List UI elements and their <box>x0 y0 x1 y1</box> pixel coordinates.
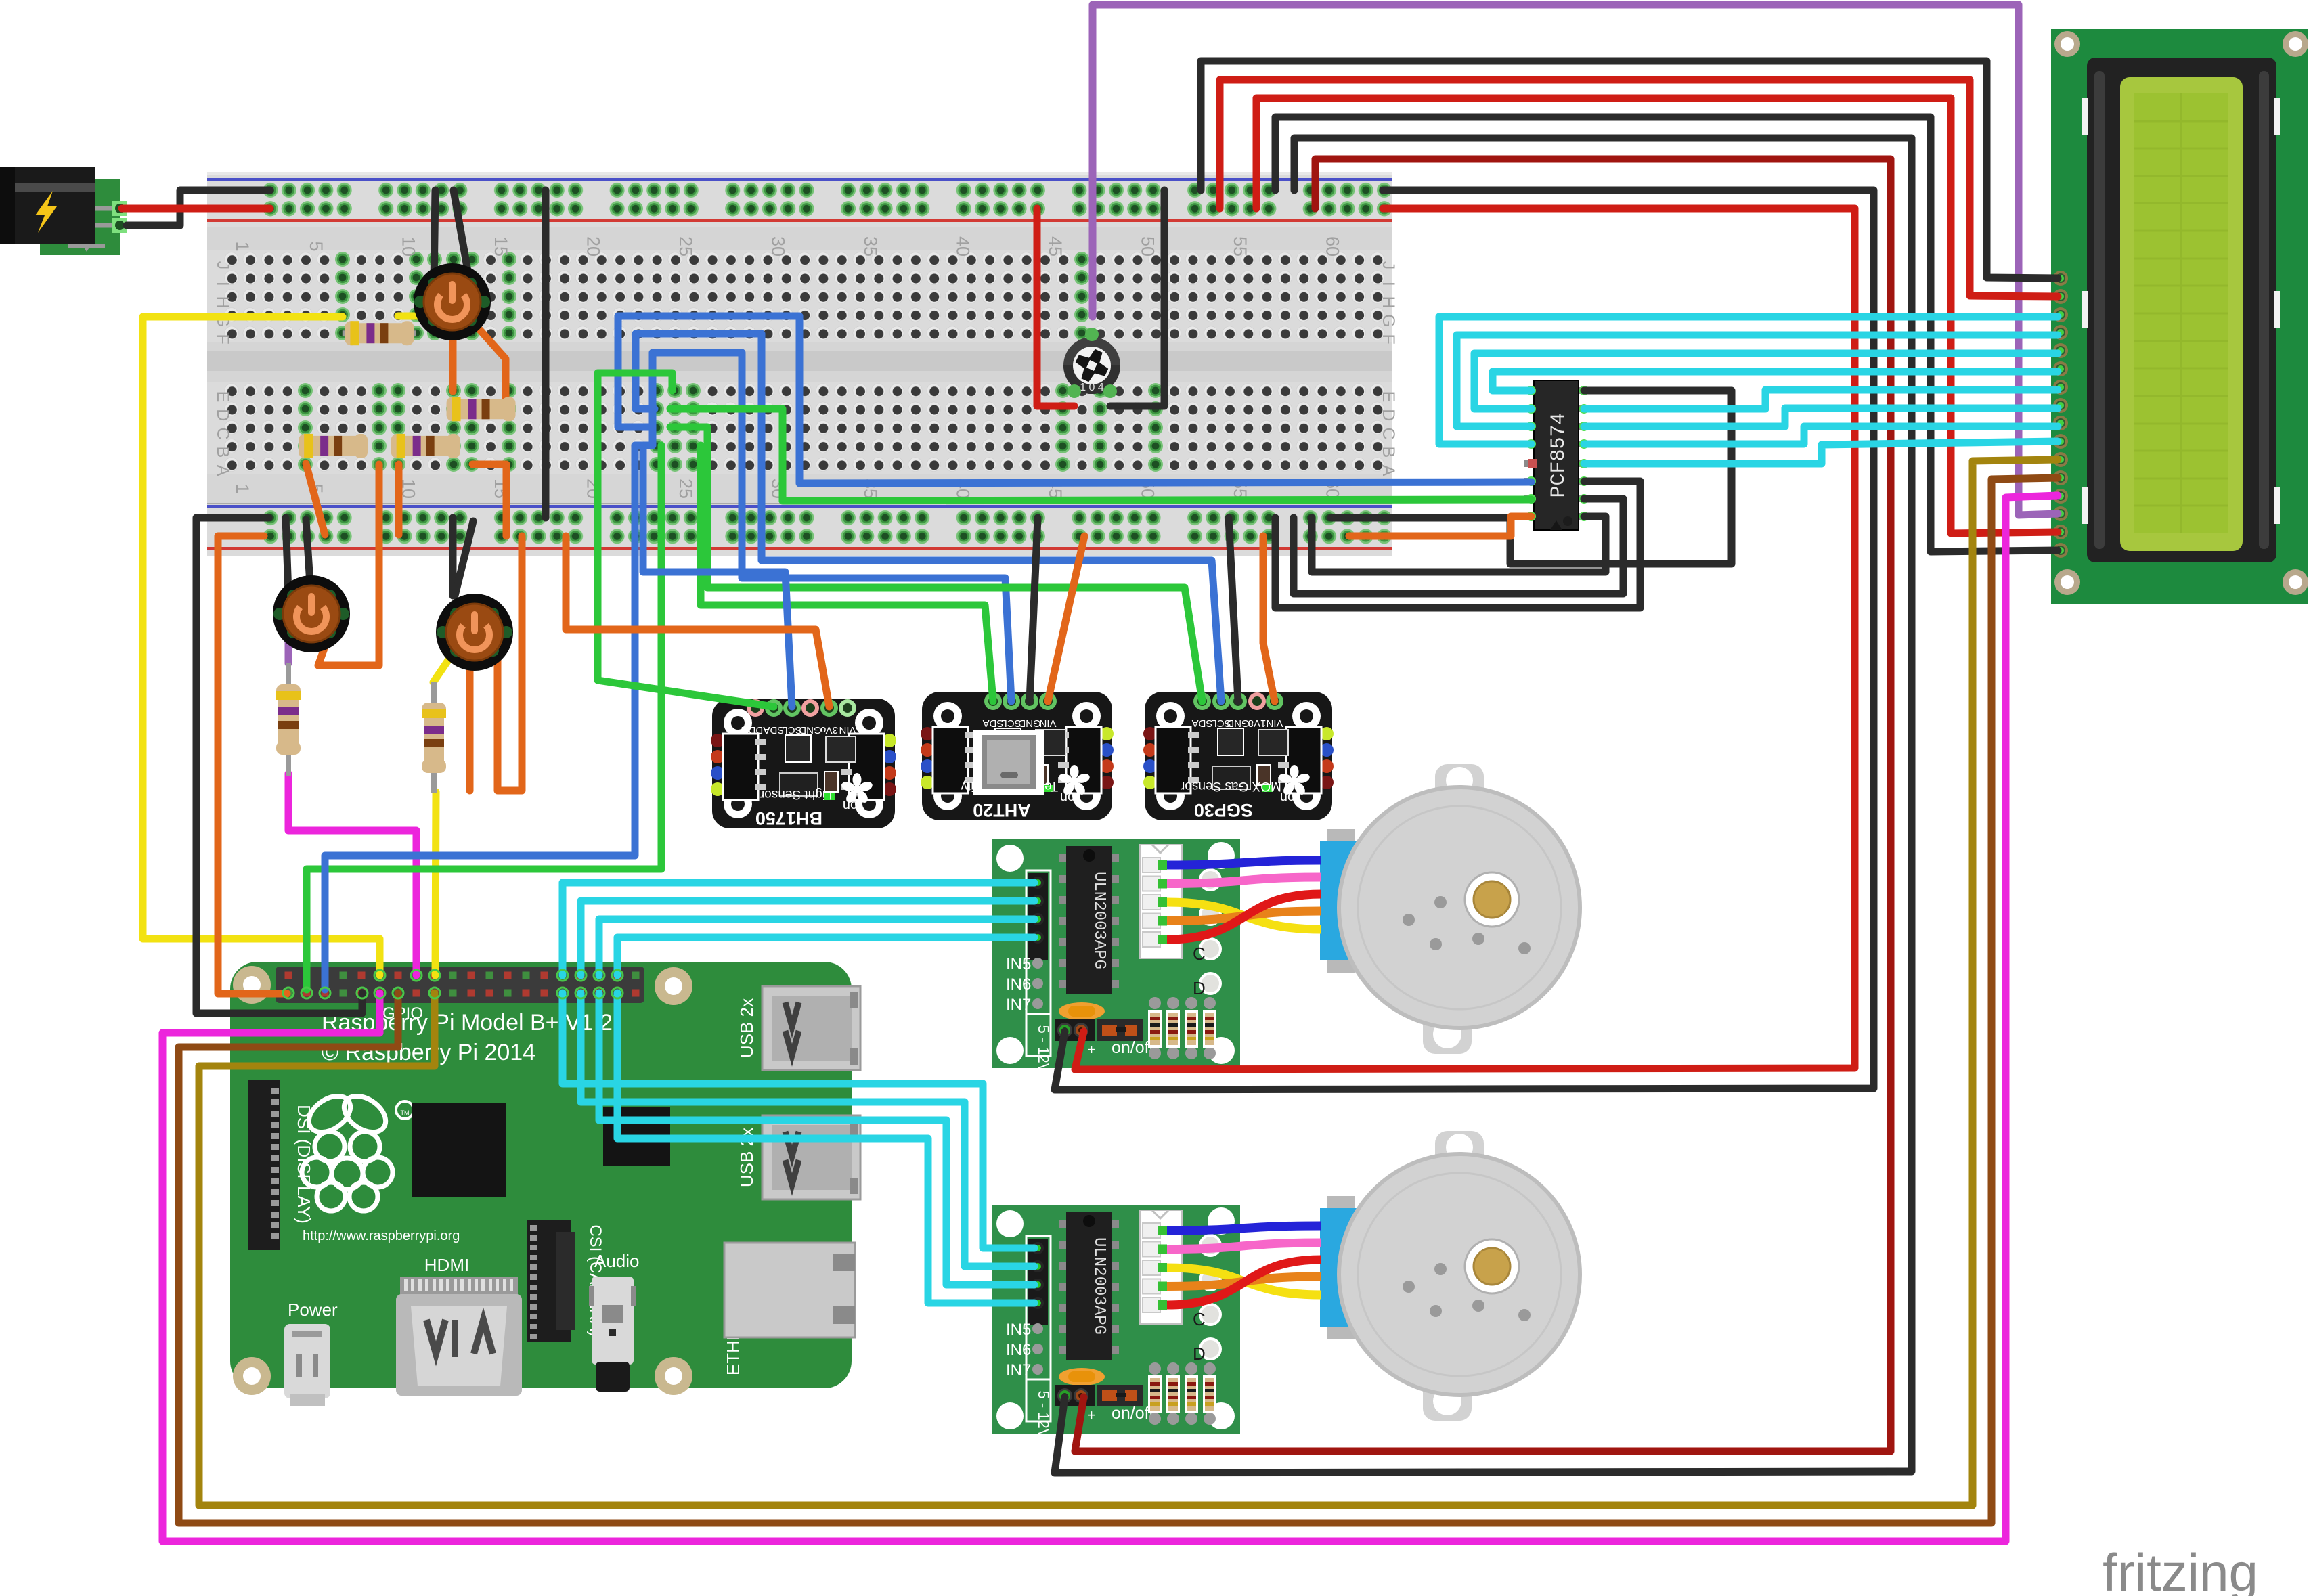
wire button2 black a <box>286 518 288 594</box>
wire cyan D0 <box>1493 372 2058 391</box>
wire black PCF p1 <box>1331 391 1732 564</box>
svg-text:SGP30: SGP30 <box>1194 800 1253 820</box>
wire driver1 black <box>1055 190 1874 1090</box>
resistor R3 <box>391 434 460 458</box>
wire button1 black a <box>434 190 435 282</box>
svg-text:IN7: IN7 <box>1006 1361 1031 1379</box>
svg-text:D: D <box>1379 409 1398 421</box>
wire cyan D3 <box>1439 317 2058 444</box>
wire orange PCF <box>1349 516 1531 536</box>
svg-text:MOX Gas Sensor: MOX Gas Sensor <box>1180 779 1281 793</box>
wire gnd black left <box>196 518 362 1013</box>
svg-text:D: D <box>1193 978 1206 998</box>
svg-text:I: I <box>213 282 232 286</box>
wire driver1 red <box>1075 208 1855 1069</box>
svg-text:SDA: SDA <box>764 724 785 736</box>
wire orange btn3 leg <box>466 648 474 791</box>
svg-text:USB 2x: USB 2x <box>736 998 757 1058</box>
wire green BH1750 <box>598 373 774 707</box>
wire magenta to GPIO <box>288 774 416 975</box>
svg-text:BH1750: BH1750 <box>755 808 822 828</box>
wire button3 yellow a <box>433 648 456 682</box>
svg-text:ULN2003APG: ULN2003APG <box>1090 872 1108 969</box>
sensor SGP30 <box>1143 692 1334 820</box>
wire cyan D1 <box>1474 353 2058 409</box>
breadboard labels <box>213 236 1398 499</box>
svg-text:GND: GND <box>1227 717 1250 729</box>
svg-text:+: + <box>1087 1406 1096 1423</box>
resistor R6 <box>422 682 446 793</box>
svg-text:5: 5 <box>306 241 326 251</box>
wire orange AHT20 <box>1048 536 1084 701</box>
svg-text:F: F <box>213 334 232 345</box>
wire blue SGP30 <box>636 334 1221 701</box>
wire cyan D6 <box>1584 426 2058 444</box>
wire cyan IN6 <box>581 993 1034 1266</box>
wire magenta LCD <box>162 495 2058 1541</box>
wire rail jumper black <box>542 190 550 518</box>
wire green AHT20 <box>701 445 993 701</box>
svg-text:I: I <box>1379 282 1398 286</box>
wire orange btn3 hook <box>498 536 522 791</box>
wire cyan IN4 <box>617 937 1034 975</box>
svg-text:A: A <box>1379 465 1398 476</box>
wire button1 orange <box>449 322 457 391</box>
wire button3 black b <box>455 521 473 596</box>
wire button1 orange b <box>471 320 506 406</box>
resistor R5 <box>276 663 301 776</box>
wire button2 purple <box>285 628 292 663</box>
svg-text:J: J <box>213 261 232 270</box>
svg-text:GND: GND <box>799 724 822 736</box>
svg-text:35: 35 <box>860 236 881 257</box>
wire LCD vcc red <box>1220 80 2058 296</box>
svg-text:IN6: IN6 <box>1006 975 1031 994</box>
svg-text:60: 60 <box>1323 236 1343 257</box>
wire button2 black b <box>306 520 311 594</box>
svg-text:C: C <box>1193 944 1206 964</box>
svg-text:fritzing: fritzing <box>2103 1543 2258 1596</box>
svg-text:3Vo: 3Vo <box>820 724 838 736</box>
svg-text:25: 25 <box>676 236 696 257</box>
svg-text:HDMI: HDMI <box>424 1255 469 1275</box>
LCD1602 display <box>2051 29 2308 604</box>
svg-text:G: G <box>1379 314 1398 327</box>
wire green SGP30 <box>670 427 1202 701</box>
wire brown LCD <box>179 478 2058 1523</box>
svg-text:IN6: IN6 <box>1006 1341 1031 1359</box>
wire orange col9 <box>318 464 379 665</box>
wire driver2 red <box>1075 159 1891 1451</box>
wire orange A10 <box>395 464 403 535</box>
svg-text:15: 15 <box>491 236 511 257</box>
svg-text:GND: GND <box>1018 717 1041 729</box>
svg-text:E: E <box>1379 391 1398 403</box>
svg-text:1 0 4: 1 0 4 <box>1080 382 1104 393</box>
wire purple LCD RW <box>1093 5 2058 515</box>
connection points <box>283 970 623 998</box>
svg-text:45: 45 <box>1045 236 1065 257</box>
svg-text:IN5: IN5 <box>1006 955 1031 973</box>
svg-text:IN7: IN7 <box>1006 996 1031 1014</box>
wire orange A16 <box>472 464 506 536</box>
power jack J1 <box>0 167 127 255</box>
trimpot RV1 104 <box>1063 328 1120 398</box>
svg-text:1: 1 <box>232 241 252 251</box>
svg-text:C: C <box>1193 1309 1206 1329</box>
resistor R2 <box>299 434 368 458</box>
svg-text:http://www.raspberrypi.org: http://www.raspberrypi.org <box>303 1228 460 1243</box>
svg-text:SDA: SDA <box>1192 717 1213 729</box>
svg-text:D: D <box>213 409 232 421</box>
wire cyan IN7 <box>599 993 1034 1285</box>
wire cyan D4 <box>1584 390 2058 409</box>
svg-text:Audio: Audio <box>594 1251 640 1271</box>
resistor R1 <box>343 321 416 345</box>
svg-text:50: 50 <box>1138 236 1158 257</box>
svg-text:E: E <box>213 391 232 403</box>
wire black SGP30 <box>1229 518 1238 701</box>
wire trimpot red <box>1037 208 1074 406</box>
wire LCD K black <box>1275 117 2058 552</box>
wire orange BH1750 <box>566 536 829 707</box>
svg-text:5 - 12V: 5 - 12V <box>1035 1025 1052 1073</box>
wire cyan IN8 <box>617 993 1034 1303</box>
IC PCF8574 U2 <box>1524 380 1589 530</box>
wire black PCF p7 <box>1294 499 1623 594</box>
wire yellow stub G11 <box>398 313 433 320</box>
wire green GPIO SDA <box>307 445 661 990</box>
wire cyan D5 <box>1584 408 2058 426</box>
svg-text:55: 55 <box>1230 236 1250 257</box>
wire button1 black b <box>454 190 470 282</box>
wire LCD gnd black <box>1201 61 2058 278</box>
wire blue PCF <box>618 316 1531 483</box>
svg-text:AHT20: AHT20 <box>973 800 1031 820</box>
svg-text:D: D <box>1193 1344 1206 1364</box>
svg-text:30: 30 <box>768 236 789 257</box>
sensor AHT20 <box>921 692 1114 820</box>
wire 5V orange left <box>218 536 287 994</box>
wire black PCF p8 <box>1312 516 1606 572</box>
wire black AHT20 <box>1030 518 1038 701</box>
svg-text:1: 1 <box>232 483 252 493</box>
svg-text:SDA: SDA <box>983 717 1004 729</box>
wire cyan D7 <box>1584 441 2058 464</box>
svg-text:10: 10 <box>399 236 419 257</box>
wire button3 black a <box>449 518 457 596</box>
breadboard <box>207 172 1392 556</box>
motor M1 ribbon <box>1167 860 1321 939</box>
svg-text:ULN2003APG: ULN2003APG <box>1090 1237 1108 1335</box>
AHT20 sensor element <box>973 730 1044 795</box>
wire button3 yellow b <box>435 792 436 975</box>
stepper driver ULN2003 #2 <box>992 1205 1240 1439</box>
svg-text:SCL: SCL <box>1001 717 1021 729</box>
svg-text:25: 25 <box>676 479 696 499</box>
svg-text:H: H <box>1379 296 1398 309</box>
svg-text:on/off: on/off <box>1112 1404 1153 1423</box>
wire cyan IN3 <box>599 919 1034 975</box>
wire green PCF <box>670 409 1531 501</box>
wire olive LCD <box>199 460 2058 1505</box>
breadboard connected strips <box>298 252 1163 472</box>
svg-text:20: 20 <box>584 236 604 257</box>
wire black PCF p6 <box>1275 481 1640 608</box>
svg-text:IN5: IN5 <box>1006 1321 1031 1339</box>
stepper motor M2 <box>1320 1131 1580 1421</box>
svg-text:C: C <box>213 428 232 440</box>
svg-text:VIN: VIN <box>839 724 856 736</box>
wire LCD A red <box>1256 98 2058 533</box>
svg-text:VIN: VIN <box>1039 717 1056 729</box>
wire cyan IN2 <box>581 901 1034 975</box>
wire cyan D2 <box>1457 335 2058 426</box>
wire blue GPIO SCL <box>325 353 1011 990</box>
wire trimpot black <box>1110 190 1164 406</box>
svg-text:PCF8574: PCF8574 <box>1547 412 1570 497</box>
wire jack red <box>122 205 270 213</box>
Raspberry Pi B+ <box>230 962 860 1406</box>
svg-text:B: B <box>1379 447 1398 458</box>
pushbutton S2 <box>273 575 350 652</box>
pushbutton S3 <box>436 594 513 671</box>
wire blue BH1750 <box>643 445 792 707</box>
pushbutton S1 <box>414 263 491 340</box>
motor M2 ribbon <box>1167 1226 1321 1305</box>
svg-text:VIN: VIN <box>1266 717 1283 729</box>
svg-text:J: J <box>1379 261 1398 270</box>
svg-text:on/off: on/off <box>1112 1038 1153 1057</box>
svg-text:40: 40 <box>953 236 973 257</box>
svg-text:B: B <box>213 447 232 458</box>
svg-text:SCL: SCL <box>782 724 801 736</box>
svg-text:Power: Power <box>288 1300 338 1320</box>
wire cyan IN5 <box>563 993 1034 1248</box>
svg-text:1V8: 1V8 <box>1248 717 1267 729</box>
stepper driver ULN2003 #1 <box>992 839 1240 1073</box>
svg-text:H: H <box>213 296 232 309</box>
stepper motor M1 <box>1320 764 1580 1054</box>
resistor R4 <box>447 397 516 421</box>
wire yellow long <box>143 317 380 975</box>
svg-text:A: A <box>213 465 232 476</box>
svg-text:F: F <box>1379 334 1398 345</box>
svg-text:+: + <box>1087 1041 1096 1058</box>
svg-text:Light Sensor: Light Sensor <box>760 787 832 801</box>
sensor BH1750 <box>711 699 896 828</box>
wire orange SGP30 <box>1263 536 1275 701</box>
svg-text:TM: TM <box>401 1109 410 1116</box>
wire orange A5 <box>306 464 325 535</box>
wire jack black <box>127 190 270 225</box>
wire driver2 black <box>1055 138 1912 1473</box>
wire cyan IN1 <box>563 883 1034 975</box>
svg-text:5 - 12V: 5 - 12V <box>1035 1391 1052 1439</box>
svg-text:C: C <box>1379 428 1398 440</box>
